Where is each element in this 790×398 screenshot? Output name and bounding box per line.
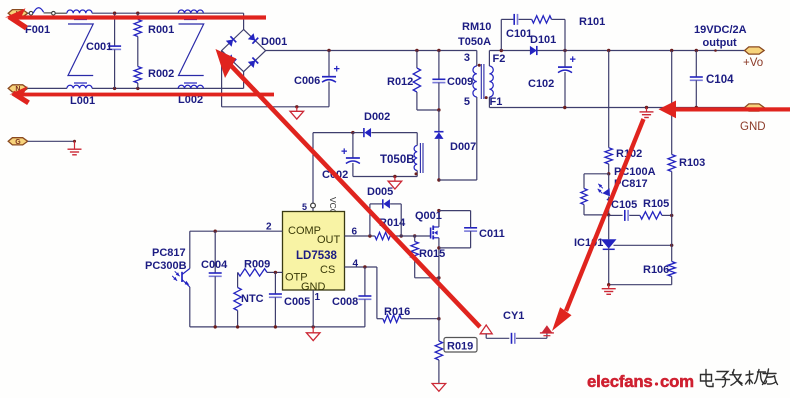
wire GND pin — [312, 290, 314, 327]
wire pin5 to drain node — [439, 179, 477, 181]
red arrow long diagonal to bridge — [216, 49, 481, 327]
connector G input port — [8, 138, 28, 145]
CY1 left chassis ground — [480, 325, 492, 338]
L002 coupling Z symbol — [179, 24, 204, 76]
wire VCC rail — [313, 133, 353, 212]
inductor L001 bottom winding — [67, 85, 92, 88]
shunt regulator IC101 — [601, 215, 617, 285]
resistor R103 — [668, 51, 675, 216]
L001 core bars — [74, 19, 87, 21]
connector N input port — [8, 85, 28, 92]
capacitor C011 — [439, 211, 477, 248]
VCC pin symbol — [311, 203, 316, 208]
svg-text:IC101: IC101 — [574, 237, 603, 249]
svg-text:NTC: NTC — [241, 293, 264, 305]
snubber C101 R101 loop — [501, 19, 513, 50]
svg-text:5: 5 — [302, 202, 307, 212]
red arrow top AC line — [5, 8, 266, 28]
resistor R105 — [640, 212, 662, 219]
secondary phase dot — [485, 96, 488, 99]
svg-text:C105: C105 — [611, 199, 637, 211]
resistor R001 — [134, 13, 141, 66]
svg-text:R002: R002 — [148, 68, 174, 80]
feedback earth ground — [602, 285, 616, 295]
CY1 right earth ground — [540, 325, 554, 338]
svg-text:D101: D101 — [530, 34, 556, 46]
primary ground symbol under C006 rail — [290, 107, 304, 119]
svg-text:D007: D007 — [450, 141, 476, 153]
red arrow N AC line — [10, 86, 275, 103]
svg-text:+: + — [341, 146, 347, 158]
svg-text:F1: F1 — [490, 96, 503, 108]
capacitor C004 — [209, 231, 222, 327]
svg-text:F001: F001 — [25, 24, 50, 36]
resistor R012 — [413, 51, 439, 111]
watermark chinese characters — [701, 369, 778, 387]
transformer T050A secondary winding — [489, 51, 493, 108]
svg-text:CS: CS — [320, 264, 335, 276]
resistor R101 — [532, 16, 552, 23]
svg-text:C009: C009 — [447, 76, 473, 88]
diode D007 — [434, 110, 443, 180]
svg-text:D001: D001 — [261, 36, 287, 48]
node top AC junction dots — [113, 12, 116, 15]
svg-text:PC300B: PC300B — [145, 260, 187, 272]
op-amp U1 LD7538 controller box — [283, 212, 345, 291]
wire feedback bottom — [609, 284, 672, 286]
resistor R015 — [411, 236, 439, 278]
wire IC101 ref — [614, 244, 672, 246]
svg-text:C004: C004 — [201, 259, 228, 271]
svg-text:GND: GND — [740, 121, 766, 133]
L001 coupling Z symbol — [68, 24, 93, 76]
svg-text:D002: D002 — [364, 111, 390, 123]
thermistor NTC — [234, 272, 241, 327]
aux ground symbol — [388, 177, 402, 190]
connector GND output port — [745, 104, 765, 111]
wire C101 to R101 — [519, 18, 532, 20]
inductor L002 top winding — [178, 10, 203, 13]
transformer core — [481, 64, 484, 99]
watermark elecfans.com — [587, 372, 694, 391]
svg-text:T050B: T050B — [380, 154, 415, 166]
svg-text:CY1: CY1 — [503, 310, 524, 322]
svg-text:com: com — [660, 372, 694, 391]
inductor L002 bottom winding — [178, 85, 203, 88]
fuse F001 — [29, 8, 55, 15]
svg-text:C011: C011 — [479, 228, 505, 240]
svg-text:C102: C102 — [528, 78, 554, 90]
wire secondary ground line — [489, 107, 744, 109]
capacitor C008 — [358, 267, 371, 327]
wire COMP line — [190, 230, 283, 232]
svg-text:C104: C104 — [706, 74, 734, 86]
capacitor C102 electrolytic — [558, 51, 576, 108]
svg-text:L001: L001 — [70, 95, 95, 107]
wire bottom AC into bridge — [243, 72, 245, 89]
optocoupler PC100A LED — [598, 174, 615, 215]
svg-text:C101: C101 — [506, 28, 532, 40]
svg-text:R019: R019 — [447, 341, 473, 353]
resistor R106 — [668, 215, 675, 284]
aux phase dot — [415, 172, 418, 175]
wire R101 down to rail — [552, 19, 566, 50]
label R019 boxed — [444, 338, 477, 353]
transformer T050B aux winding — [414, 133, 423, 177]
L002 core bars — [184, 19, 197, 21]
wire bridge positive rail — [266, 50, 477, 52]
svg-text:3: 3 — [464, 52, 470, 64]
primary phase dot — [478, 64, 481, 67]
wire G to earth — [28, 140, 75, 142]
svg-text:R015: R015 — [419, 248, 445, 260]
bridge rectifier D001 frame — [222, 30, 266, 72]
resistor parallel to LED — [581, 174, 609, 215]
resistor R014 — [375, 232, 393, 239]
capacitor C002 electrolytic — [341, 133, 360, 177]
connector L input port — [8, 10, 28, 17]
svg-text:G: G — [15, 139, 21, 146]
diode D002 — [353, 128, 417, 137]
svg-text:OUT: OUT — [317, 234, 341, 246]
svg-text:elecfans: elecfans — [587, 372, 653, 391]
wire top AC into bridge — [243, 13, 245, 29]
optocoupler PC300B phototransistor — [172, 231, 190, 327]
red arrow GND line — [659, 101, 790, 119]
svg-text:+Vo: +Vo — [743, 57, 763, 69]
svg-text:output: output — [703, 37, 738, 49]
svg-text:R101: R101 — [579, 16, 605, 28]
input earth ground — [68, 141, 82, 155]
resistor R019 — [435, 319, 442, 384]
diode D005 bypass loop — [370, 199, 401, 236]
secondary earth ground — [640, 108, 654, 118]
transistor Q001 MOSFET — [431, 211, 439, 319]
svg-text:R016: R016 — [384, 306, 410, 318]
resistor R002 — [134, 67, 141, 89]
wire N to L001 — [28, 87, 67, 89]
svg-text:19VDC/2A: 19VDC/2A — [694, 24, 747, 36]
wire R105 to divider — [662, 214, 672, 216]
capacitor C005 — [269, 272, 282, 327]
capacitor CY1 — [486, 333, 547, 344]
svg-text:R103: R103 — [679, 157, 705, 169]
inductor L001 top winding — [67, 10, 92, 13]
wire L001 bottom to bridge — [92, 87, 244, 89]
wire fuse to L001 — [55, 12, 67, 14]
bridge diode top-right — [248, 33, 258, 43]
bridge diode top-left — [226, 36, 236, 46]
bridge diode bottom-right — [248, 57, 258, 67]
capacitor C001 — [108, 13, 121, 88]
IC ground symbol — [306, 327, 320, 341]
wire secondary positive rail — [489, 50, 744, 52]
wire L to fuse — [28, 12, 30, 14]
svg-text:LD7538: LD7538 — [296, 250, 338, 262]
bridge diode bottom-left — [226, 54, 236, 64]
R019 ground symbol — [432, 384, 446, 392]
svg-text:R009: R009 — [244, 259, 270, 271]
svg-text:C005: C005 — [284, 296, 310, 308]
wire OUT gate line — [345, 235, 375, 237]
svg-text:R012: R012 — [387, 76, 413, 88]
svg-text:F2: F2 — [493, 53, 506, 65]
svg-text:PC817: PC817 — [152, 247, 186, 259]
wire bridge negative rail — [222, 51, 329, 107]
svg-text:R001: R001 — [148, 24, 174, 36]
capacitor C101 — [513, 14, 515, 25]
svg-text:R106: R106 — [643, 264, 669, 276]
capacitor C105 — [609, 210, 640, 221]
connector +Vo output port — [745, 47, 765, 54]
capacitor C009 — [432, 51, 445, 111]
capacitor C104 — [690, 51, 703, 108]
wire R014 to gate — [393, 235, 430, 237]
resistor R009 — [238, 269, 283, 276]
svg-text:D005: D005 — [367, 186, 393, 198]
resistor R016 — [383, 315, 439, 322]
svg-text:4: 4 — [353, 259, 359, 270]
svg-text:5: 5 — [464, 96, 470, 108]
capacitor C006 electrolytic — [322, 51, 340, 107]
diode D101 — [530, 46, 537, 55]
svg-text:R105: R105 — [643, 198, 669, 210]
svg-text:C008: C008 — [332, 296, 358, 308]
wire primary control ground rail — [190, 326, 365, 328]
resistor R102 — [605, 51, 612, 174]
svg-text:1: 1 — [315, 292, 321, 303]
wire CS line — [345, 267, 383, 319]
svg-text:RM10: RM10 — [462, 21, 491, 33]
svg-text:T050A: T050A — [458, 36, 491, 48]
transformer T050A primary winding — [473, 51, 477, 181]
svg-text:+: + — [334, 64, 340, 76]
svg-text:C006: C006 — [294, 75, 320, 87]
wire L001 top to bridge — [92, 12, 244, 14]
wire aux return — [353, 176, 417, 178]
svg-text:+: + — [570, 54, 576, 66]
svg-text:C001: C001 — [86, 41, 112, 53]
red arrow right diagonal to CY1 — [552, 119, 644, 331]
